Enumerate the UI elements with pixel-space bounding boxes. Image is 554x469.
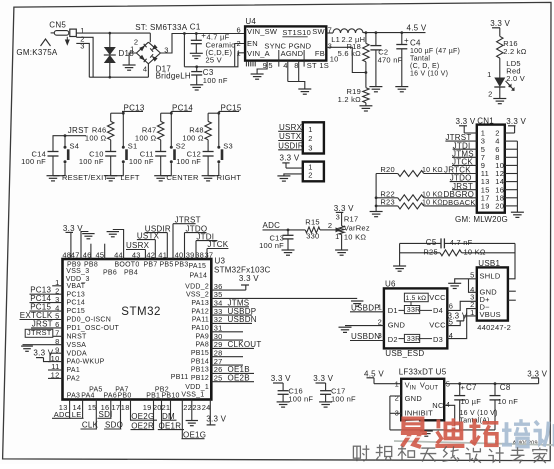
capacitor C13 100nF xyxy=(259,229,293,251)
LED LD5 red xyxy=(487,58,525,99)
svg-text:USRX: USRX xyxy=(126,241,150,250)
wire U6 D4 to USB1 D+ xyxy=(447,301,477,310)
svg-text:USDIR: USDIR xyxy=(278,141,304,150)
svg-text:PC13: PC13 xyxy=(67,291,86,298)
svg-text:GM:K375A: GM:K375A xyxy=(16,48,58,57)
svg-text:STM32: STM32 xyxy=(121,306,161,318)
svg-text:GM: MLW20G: GM: MLW20G xyxy=(455,215,508,224)
wire jog to RC branch xyxy=(208,112,219,114)
wire PC15 net xyxy=(219,110,239,112)
watermark rule line xyxy=(394,441,554,445)
svg-text:PA12: PA12 xyxy=(191,308,209,315)
wire U3 pin45 stub xyxy=(104,244,106,259)
svg-text:46: 46 xyxy=(83,250,92,259)
wire USB1 mounting stub 1 xyxy=(508,290,516,292)
microcontroller U3 STM32Fx103C xyxy=(63,257,271,400)
ground under C17 xyxy=(319,401,332,403)
wire U3 pin8 to ground xyxy=(23,344,63,346)
svg-text:PB1: PB1 xyxy=(146,393,160,400)
svg-text:DM: DM xyxy=(162,412,175,421)
U3 top pin numbers xyxy=(62,250,213,259)
svg-text:4.5 V: 4.5 V xyxy=(364,369,384,378)
svg-text:2: 2 xyxy=(308,171,312,180)
wire CN5 pin3 down xyxy=(76,43,89,77)
svg-text:43: 43 xyxy=(132,250,141,259)
svg-text:16 V (10 V): 16 V (10 V) xyxy=(410,70,448,77)
svg-text:ST: ST xyxy=(307,61,317,70)
svg-text:PD1_OSC-OUT: PD1_OSC-OUT xyxy=(67,325,120,332)
ground under C10 xyxy=(104,175,117,177)
wire 3.3V to CN1 pin1 xyxy=(464,132,477,134)
svg-text:R25: R25 xyxy=(423,248,438,257)
svg-text:VDD_1: VDD_1 xyxy=(185,384,209,391)
svg-text:33R: 33R xyxy=(407,336,421,343)
svg-text:BridgeLH: BridgeLH xyxy=(156,72,191,81)
wire U3 pin11 stub xyxy=(48,369,63,371)
wire pin2 to ground xyxy=(284,174,303,176)
svg-text:NRST: NRST xyxy=(67,333,88,340)
svg-text:100 nF: 100 nF xyxy=(21,157,46,166)
svg-text:3.3 V: 3.3 V xyxy=(456,117,476,126)
inductor L1 2.2uH xyxy=(331,29,365,44)
svg-text:BOOT0: BOOT0 xyxy=(115,261,140,268)
capacitor C3 100nF xyxy=(191,65,228,84)
svg-text:4: 4 xyxy=(446,400,450,409)
watermark glyph blue 2 xyxy=(534,420,554,450)
wire U5 INHIBIT xyxy=(390,412,401,414)
junction FB divider xyxy=(365,71,368,74)
svg-text:VSS_3: VSS_3 xyxy=(66,268,89,275)
wire CN5 pin2 down xyxy=(76,37,93,77)
wire U4 SW pin7 to L1 xyxy=(326,32,333,34)
wire U3 pin46 stub xyxy=(90,244,92,259)
svg-text:VIN_SW: VIN_SW xyxy=(247,27,278,36)
svg-text:C5: C5 xyxy=(426,238,437,247)
wire vertical junction to lower rail xyxy=(183,34,185,67)
capacitor C12 100nF xyxy=(176,150,213,176)
wire lower rail to EN riser xyxy=(184,66,234,68)
svg-text:C1: C1 xyxy=(190,23,201,32)
svg-text:EN: EN xyxy=(247,39,258,48)
svg-text:33R: 33R xyxy=(407,307,421,314)
resistor R23 10K DBGACK xyxy=(376,197,477,209)
ground at CN1 pulldown bus xyxy=(370,211,383,213)
U3 inside left labels xyxy=(67,283,120,383)
capacitor C16 100nF xyxy=(278,387,314,404)
svg-text:GND: GND xyxy=(405,394,423,403)
ground at shield RC xyxy=(393,265,406,267)
svg-text:D3: D3 xyxy=(433,335,443,344)
svg-text:C8: C8 xyxy=(500,383,511,392)
svg-text:Tantal: Tantal xyxy=(410,55,430,62)
wire CN1 pulldown bus xyxy=(375,174,378,212)
capacitor C11 100nF xyxy=(129,150,166,176)
svg-text:SHLD: SHLD xyxy=(480,271,501,280)
power 3.3V at R16 xyxy=(490,19,510,36)
svg-text:R23: R23 xyxy=(380,197,395,206)
resistor R16 2.2k xyxy=(497,36,527,58)
wire U3 pin35 to ground xyxy=(211,297,357,299)
wire PC13 to U3 xyxy=(30,293,63,295)
svg-text:470 nF: 470 nF xyxy=(378,55,403,64)
svg-text:PB3: PB3 xyxy=(175,261,189,268)
junction D18 bottom xyxy=(109,76,112,79)
wire U3 pin24 to 3.3V xyxy=(209,400,211,425)
ground at bridge pin1 xyxy=(123,64,136,66)
ground at U3 pin35 xyxy=(351,300,363,302)
U3 inside top labels xyxy=(66,261,207,283)
bridge rectifier D17 BridgeLH xyxy=(130,37,191,80)
wire U4 pins 4 8 AGND to ground xyxy=(288,61,305,89)
svg-text:+: + xyxy=(404,36,409,45)
wire JTDI riser xyxy=(196,240,217,242)
wire U6 VCC pin5 to 3.3V xyxy=(447,321,460,326)
wire U3 pin 31 stub xyxy=(211,331,243,333)
svg-text:1: 1 xyxy=(308,125,312,134)
svg-text:44: 44 xyxy=(114,250,123,259)
svg-text:2: 2 xyxy=(236,39,240,48)
wire U3 pin10 stub xyxy=(48,361,63,363)
svg-text:3: 3 xyxy=(308,143,312,152)
capacitor C8 10nF xyxy=(490,382,519,430)
wire U3 pin 30 stub xyxy=(211,339,243,341)
wire CN5 pin1 to D18/bridge top net xyxy=(76,32,150,34)
connector CN1 JTAG MLW20G xyxy=(477,117,505,213)
svg-text:1.5 kΩ: 1.5 kΩ xyxy=(406,295,427,302)
svg-text:LEFT: LEFT xyxy=(120,173,140,182)
svg-text:+: + xyxy=(461,383,466,392)
U4 bottom group dividers xyxy=(279,61,304,67)
ground under C13 xyxy=(282,249,295,251)
connector CN5 power jack xyxy=(16,21,84,58)
svg-text:330: 330 xyxy=(306,232,319,241)
net label JTRST boxed at U3 xyxy=(25,328,53,337)
wire U3 pin19 OE2R xyxy=(153,400,155,430)
power 3.3V at C16 xyxy=(271,374,291,391)
switch S4 xyxy=(64,142,80,164)
ground at U3 pin23 xyxy=(186,420,198,422)
svg-text:100 Ω: 100 Ω xyxy=(182,133,204,142)
ground under C11 xyxy=(154,175,167,177)
wire U3 pin14 LE xyxy=(82,400,84,419)
watermark glyph red 3 xyxy=(469,419,498,446)
net label SDI at U3 xyxy=(98,410,113,419)
wire JTCK riser xyxy=(207,248,228,250)
wire riser to switch S1 xyxy=(122,111,124,147)
svg-text:1: 1 xyxy=(487,70,491,79)
svg-text:1S: 1S xyxy=(319,61,329,70)
svg-text:SDO: SDO xyxy=(105,421,123,430)
wire CN1 even pins bus xyxy=(505,141,518,212)
svg-text:PA9: PA9 xyxy=(196,333,209,340)
power 3.3V at U6 VCC xyxy=(448,311,468,321)
wire USBDN to U6 xyxy=(350,340,384,342)
wire U6 GND to ground xyxy=(345,325,384,327)
svg-text:10 KΩ: 10 KΩ xyxy=(464,248,486,257)
svg-text:S1: S1 xyxy=(128,142,138,151)
wire JTMS to CN1 xyxy=(452,156,477,158)
svg-text:AGND: AGND xyxy=(281,49,304,58)
power 3.3V at CN1 pin2 xyxy=(506,117,526,133)
svg-text:6: 6 xyxy=(236,26,240,35)
switch S3 xyxy=(217,142,233,164)
wire USDIR xyxy=(278,149,303,151)
svg-text:100 nF: 100 nF xyxy=(203,76,228,85)
svg-text:20: 20 xyxy=(495,202,504,211)
wire U3 pin23 to ground xyxy=(191,400,193,421)
wire EXTCLK to U3 xyxy=(20,319,63,321)
svg-text:USB_ESD: USB_ESD xyxy=(385,349,424,358)
svg-text:VBUS: VBUS xyxy=(480,310,501,319)
usb esd filter U6 USB_ESD xyxy=(384,280,447,359)
net label ADC at U3 xyxy=(52,410,71,419)
svg-text:GND: GND xyxy=(388,321,406,330)
svg-text:100 nF: 100 nF xyxy=(288,395,313,404)
svg-text:PB6: PB6 xyxy=(103,270,117,277)
svg-text:D1: D1 xyxy=(388,306,398,315)
wire USTX riser xyxy=(137,239,155,241)
svg-text:42: 42 xyxy=(146,250,155,259)
resistor R18 5.6k xyxy=(338,31,369,72)
svg-text:PA8: PA8 xyxy=(196,342,209,349)
connector USB1 440247-2 xyxy=(470,259,511,332)
svg-text:2.0 V: 2.0 V xyxy=(506,74,525,83)
svg-text:3.3 V: 3.3 V xyxy=(271,374,291,383)
diode D18 TVS SM6T33A xyxy=(104,33,134,77)
svg-text:S2: S2 xyxy=(176,142,186,151)
wire bridge pin1 to ground xyxy=(129,53,136,65)
U3 inside bottom labels xyxy=(67,374,209,400)
svg-text:R15: R15 xyxy=(305,218,320,227)
connector power 2pin xyxy=(303,162,324,182)
power 3.3V at 2pin connector xyxy=(280,153,300,168)
svg-text:3.3 V: 3.3 V xyxy=(527,369,547,378)
net label CLK at U3 xyxy=(81,421,99,430)
svg-text:JRST: JRST xyxy=(32,319,53,328)
U3 right pin numbers xyxy=(214,282,223,383)
svg-text:U3: U3 xyxy=(215,257,226,266)
svg-text:SDI: SDI xyxy=(99,410,113,419)
capacitor C4 100uF tantalum xyxy=(396,31,460,86)
svg-text:ST: SM6T33A: ST: SM6T33A xyxy=(135,23,188,32)
ground under C16 xyxy=(277,401,290,403)
ground at U3 pin8 xyxy=(21,345,33,347)
U6 pin numbers xyxy=(378,302,454,340)
wire riser to switch S4 xyxy=(64,136,66,148)
svg-text:17: 17 xyxy=(112,403,121,412)
capacitor C10 100nF xyxy=(79,150,116,176)
connector USART 3pin xyxy=(303,122,324,153)
svg-text:40: 40 xyxy=(175,250,184,259)
svg-text:PB4: PB4 xyxy=(124,270,138,277)
capacitor C1 4.7uF xyxy=(190,23,235,65)
wire U3 pin47 to ground xyxy=(81,232,88,260)
svg-text:FB: FB xyxy=(315,49,325,58)
wire 4.5V output rail xyxy=(363,32,426,34)
capacitor C17 100nF xyxy=(320,387,356,404)
svg-text:1: 1 xyxy=(130,45,134,54)
svg-text:S3: S3 xyxy=(223,142,233,151)
wire ADC net xyxy=(263,229,306,231)
wire 3.3V to pin1 xyxy=(286,167,303,169)
svg-text:PC14: PC14 xyxy=(67,300,86,307)
wire USB1 GND to shield net xyxy=(469,279,477,293)
svg-text:22: 22 xyxy=(183,403,192,412)
wire U3 pin17 SDO xyxy=(120,400,122,430)
svg-text:VCC: VCC xyxy=(429,293,446,302)
power 3.3V at CN1 pin1 xyxy=(456,117,476,133)
svg-text:RIGHT: RIGHT xyxy=(217,173,242,182)
power 3.3V at U3 pin48 xyxy=(63,224,83,259)
wire U3 pin 27 stub xyxy=(211,364,243,366)
svg-text:CLK: CLK xyxy=(82,421,99,430)
svg-text:24: 24 xyxy=(202,403,211,412)
svg-text:VarRez: VarRez xyxy=(344,224,370,233)
wire USB1 SHLD to ground xyxy=(455,279,477,284)
svg-text:45: 45 xyxy=(96,250,105,259)
wire bridge pin3 up to +rail xyxy=(160,34,245,54)
wire PC13 net xyxy=(122,110,143,112)
svg-text:8: 8 xyxy=(294,61,298,70)
wire USBDP to U6 xyxy=(350,311,384,313)
power 3.3V at C17 xyxy=(313,374,333,391)
svg-text:+: + xyxy=(201,31,206,40)
svg-text:IN: IN xyxy=(410,386,417,392)
wire CLKOUT xyxy=(211,347,254,349)
svg-text:PA4: PA4 xyxy=(81,393,94,400)
svg-text:PB13: PB13 xyxy=(191,367,209,374)
wire U4 pin9 to ground xyxy=(257,61,267,74)
svg-text:100 Ω: 100 Ω xyxy=(135,133,157,142)
wire U5 GND/INHIBIT to ground rail xyxy=(389,396,391,430)
svg-text:D2: D2 xyxy=(388,335,398,344)
wire S2 to ground xyxy=(161,163,172,176)
wire S3 to ground xyxy=(208,163,219,176)
wire U3 pin13 ADC xyxy=(69,400,71,419)
svg-text:VCC: VCC xyxy=(429,321,446,330)
svg-text:USBDN: USBDN xyxy=(351,332,380,341)
svg-text:5: 5 xyxy=(268,61,272,70)
ground at U5 xyxy=(420,430,433,432)
U3 bottom pin numbers xyxy=(59,403,211,412)
svg-text:PA11: PA11 xyxy=(192,317,209,324)
wire U3 pin18 OE2G xyxy=(130,400,132,421)
wire VIN_A riser xyxy=(235,53,245,67)
net label DM at U3 xyxy=(161,412,177,421)
svg-text:ST1S10: ST1S10 xyxy=(282,28,311,37)
svg-text:VBAT: VBAT xyxy=(67,283,86,290)
resistor R25 10K xyxy=(400,248,515,257)
svg-text:PB15: PB15 xyxy=(191,350,209,357)
wire R15 to R17 wiper xyxy=(320,229,336,231)
svg-text:PB11: PB11 xyxy=(171,374,189,381)
resistor R22 10K DBGRQ xyxy=(376,189,477,201)
net label OE2G at U3 xyxy=(130,412,157,421)
svg-text:PA2: PA2 xyxy=(67,376,80,383)
capacitor C7 10uF tantalum xyxy=(454,382,497,430)
U3 inside right labels xyxy=(185,283,209,382)
svg-text:3.3 V: 3.3 V xyxy=(63,224,83,233)
wire U3 pin44 BOOT0 to ground xyxy=(113,230,124,260)
wire S4 to ground xyxy=(53,163,65,176)
svg-text:PB14: PB14 xyxy=(191,358,209,365)
svg-text:PB12: PB12 xyxy=(191,375,209,382)
wire JTRST to U3 xyxy=(53,335,63,337)
ground under C4 xyxy=(395,86,408,88)
svg-text:PD0_O-ISCN: PD0_O-ISCN xyxy=(67,317,112,324)
svg-text:10 KΩ: 10 KΩ xyxy=(344,233,366,242)
wire 3.3V to U3 pin9 xyxy=(50,352,63,354)
wire shield RC right to USB1 shield xyxy=(508,243,515,278)
net label LE at U3 xyxy=(70,410,84,419)
resistor R46 100R xyxy=(85,113,114,151)
power 3.3V at U5 output xyxy=(527,369,547,383)
U4 pin numbers xyxy=(236,25,338,70)
svg-text:47: 47 xyxy=(71,250,80,259)
wire jog to RC branch xyxy=(111,112,124,114)
watermark glyph red 2 xyxy=(435,418,464,446)
wire PC14 net xyxy=(171,110,191,112)
svg-text:15: 15 xyxy=(88,403,97,412)
svg-text:4.7 nF: 4.7 nF xyxy=(450,238,473,247)
svg-text:4: 4 xyxy=(283,61,287,70)
svg-text:2: 2 xyxy=(395,394,399,403)
svg-text:ADC: ADC xyxy=(54,410,71,419)
svg-text:OUT: OUT xyxy=(425,386,439,392)
wire JRST to U3 xyxy=(31,327,63,329)
svg-text:USRX: USRX xyxy=(279,123,303,132)
svg-text:18: 18 xyxy=(121,403,130,412)
svg-text:10 nF: 10 nF xyxy=(498,397,519,406)
wire EN riser xyxy=(235,44,245,67)
svg-text:100 µF (47 µF): 100 µF (47 µF) xyxy=(410,48,460,55)
ground under C2 xyxy=(369,86,382,88)
wire JTRST riser xyxy=(173,223,196,225)
wire CN1 pin2 to 3.3V xyxy=(505,132,515,134)
wire U3 pin20 OE1R xyxy=(161,400,163,430)
wire U5 GND xyxy=(390,395,401,397)
wire ground rail xyxy=(390,429,495,431)
svg-text:NC: NC xyxy=(432,401,444,410)
wire PC15 to U3 xyxy=(30,310,63,312)
U5 pin numbers xyxy=(395,380,451,418)
wire U3 pin16 SDI xyxy=(110,400,112,419)
wire PC14 to U3 xyxy=(30,302,63,304)
svg-text:SW: SW xyxy=(312,27,325,36)
svg-text:PA0-WKUP: PA0-WKUP xyxy=(67,359,105,366)
power 3.3V at U3 pin36 xyxy=(211,274,259,290)
svg-text:VSS_2: VSS_2 xyxy=(186,292,209,299)
svg-text:3.3 V: 3.3 V xyxy=(490,19,510,28)
junction rail to lower rail xyxy=(183,32,186,35)
ground under R17 xyxy=(335,249,348,251)
svg-text:2: 2 xyxy=(134,37,138,46)
svg-text:VSS_1: VSS_1 xyxy=(181,392,204,399)
ground at 2pin connector xyxy=(277,175,290,177)
wire JTCK to CN1 xyxy=(452,164,477,166)
wire JTDO riser xyxy=(185,232,207,234)
svg-text:OE2G: OE2G xyxy=(131,412,154,421)
wire U3 pin21 DM xyxy=(170,400,172,421)
svg-text:3.3 V: 3.3 V xyxy=(506,117,526,126)
svg-text:CENTER: CENTER xyxy=(166,173,199,182)
ground at CN1 even pins xyxy=(511,211,524,213)
ground at U4 AGND xyxy=(298,88,311,90)
U3 left pin numbers xyxy=(51,278,60,380)
svg-text:19: 19 xyxy=(481,202,490,211)
svg-text:PA6: PA6 xyxy=(104,393,117,400)
ground under C12 xyxy=(202,175,215,177)
